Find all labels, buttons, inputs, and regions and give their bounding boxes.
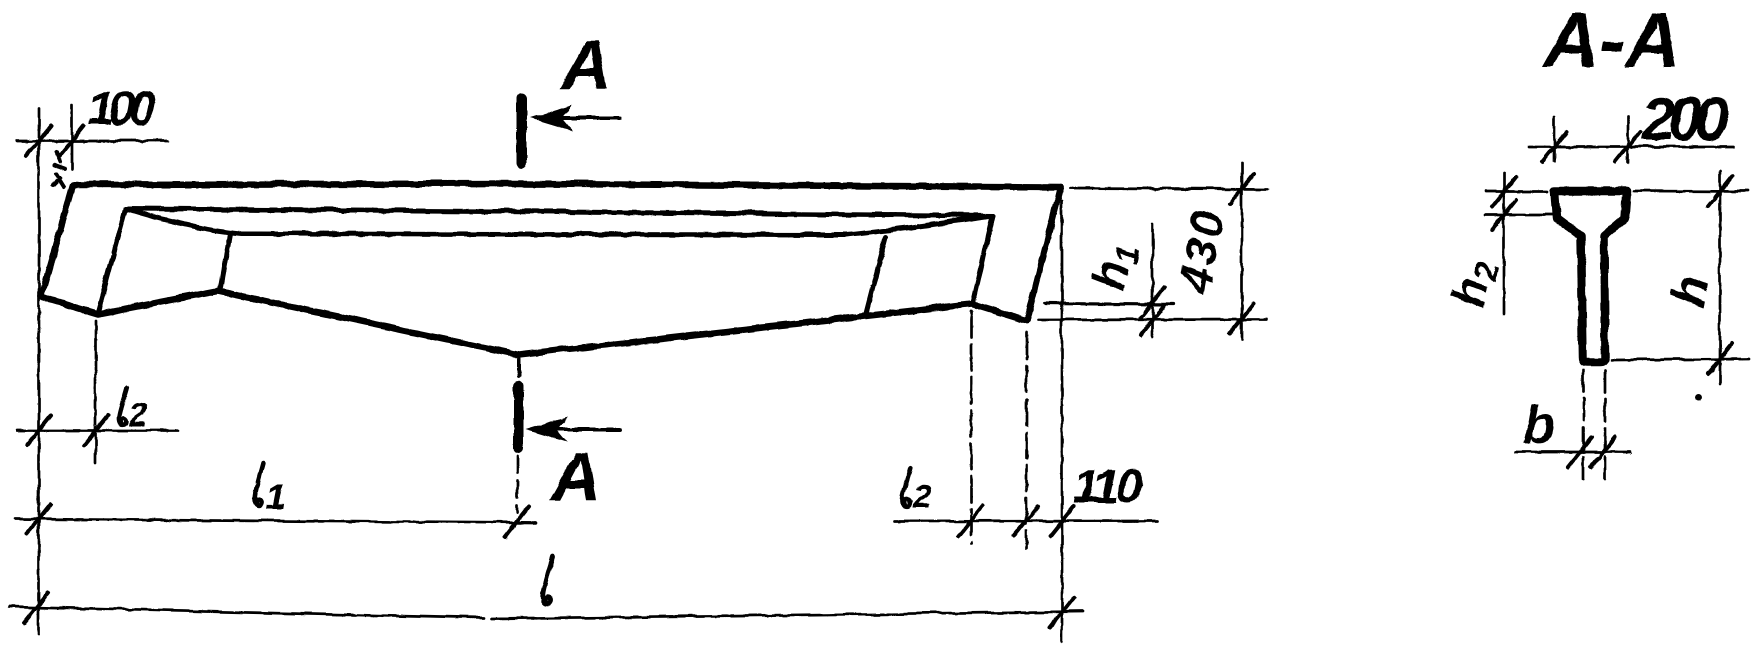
- tick h2 bottom: [1491, 199, 1515, 229]
- b extension left: [1582, 369, 1585, 480]
- tick l2r b: [1014, 505, 1038, 535]
- tick l2l a: [26, 415, 50, 445]
- tick l2l b: [83, 415, 107, 445]
- dimension line 200: [1528, 145, 1733, 148]
- b dimension line: [1514, 450, 1629, 453]
- dimension line l2 110 right: [893, 519, 1158, 522]
- extension stub 200 left: [1553, 117, 1556, 162]
- tick l1 right: [504, 506, 528, 536]
- label l1: [254, 462, 285, 516]
- dimension line l: [8, 606, 1082, 618]
- svg-text:2: 2: [911, 477, 931, 514]
- beam right sloped end edge: [1026, 186, 1060, 320]
- left transition face right edge: [219, 233, 229, 289]
- speck: [1694, 394, 1701, 401]
- tick 200 right: [1615, 131, 1639, 161]
- extension line of top-left corner: [70, 104, 73, 168]
- dimension line 430: [1240, 162, 1243, 338]
- h2 extension top: [1485, 189, 1547, 192]
- svg-text:b: b: [1522, 396, 1554, 454]
- h2 extension bottom: [1485, 212, 1552, 215]
- svg-text:2: 2: [127, 395, 147, 432]
- tick l2r a: [958, 505, 982, 535]
- tick h1 top: [1140, 287, 1164, 317]
- dashed centerline below bottom bar: [515, 455, 518, 512]
- dimension line 100: [16, 139, 166, 142]
- beam left sloped end edge: [40, 184, 72, 296]
- recess upper chamfer line: [125, 208, 992, 215]
- tick 110: [1049, 505, 1073, 535]
- svg-text:100: 100: [87, 82, 155, 135]
- tick h bottom: [1707, 343, 1731, 373]
- tick h top: [1707, 176, 1731, 206]
- extension line right shoulder down: [969, 310, 972, 542]
- dimension line l1: [14, 518, 535, 522]
- tick h2 top: [1491, 176, 1515, 206]
- tick 200 left: [1542, 131, 1566, 161]
- b extension right: [1603, 369, 1606, 480]
- svg-text:110: 110: [1072, 460, 1142, 513]
- section cut bar bottom: [513, 385, 523, 447]
- extension line at beam end bottom: [1038, 317, 1266, 320]
- T section outline: [1554, 190, 1626, 361]
- extension line left pad corner: [94, 320, 97, 462]
- beam top edge: [72, 183, 1060, 186]
- tick 100 right: [59, 125, 83, 155]
- label l2 right: [902, 468, 931, 514]
- section cut bar top: [515, 98, 526, 162]
- tick b right: [1591, 436, 1615, 466]
- h2 dimension line: [1502, 172, 1505, 313]
- tick h1 bottom: [1140, 304, 1164, 334]
- section cut arrow bottom: [549, 427, 619, 431]
- beam bottom edge: [40, 290, 1026, 354]
- label l2 left: [118, 386, 147, 432]
- h dimension line: [1718, 170, 1721, 383]
- tick b left: [1567, 436, 1591, 466]
- dimension line h1: [1151, 224, 1154, 336]
- left main extension line: [37, 108, 40, 633]
- tick l right: [1049, 597, 1073, 627]
- h extension bottom: [1611, 358, 1748, 359]
- svg-text:A: A: [548, 437, 601, 515]
- section cut arrow top: [549, 115, 619, 119]
- extension line at support shoulder: [1044, 303, 1173, 304]
- top-right extension line: [1070, 188, 1267, 189]
- tick 100 left: [26, 125, 50, 155]
- h extension top: [1633, 189, 1748, 192]
- svg-text:200: 200: [1640, 84, 1728, 152]
- tick 430 top: [1229, 173, 1253, 203]
- svg-text:A-A: A-A: [1541, 0, 1680, 83]
- tick l left: [23, 592, 47, 622]
- right transition face right edge: [972, 215, 992, 302]
- dimension line l2 left: [16, 428, 178, 431]
- left transition face left edge: [97, 208, 125, 311]
- svg-text:1: 1: [265, 475, 285, 516]
- extension stub 200 right: [1626, 115, 1629, 162]
- extension line right bottom corner down: [1024, 332, 1027, 547]
- section cut tick below vertex: [516, 358, 520, 375]
- svg-text:A: A: [558, 25, 611, 103]
- right transition face left edge: [865, 236, 885, 313]
- label l: [542, 556, 552, 603]
- tick 430 bottom: [1229, 303, 1253, 333]
- recess lower chamfer line: [125, 208, 992, 234]
- smudge mark: [52, 151, 64, 186]
- tick l1 left: [26, 503, 50, 533]
- extension line right end down: [1060, 200, 1063, 640]
